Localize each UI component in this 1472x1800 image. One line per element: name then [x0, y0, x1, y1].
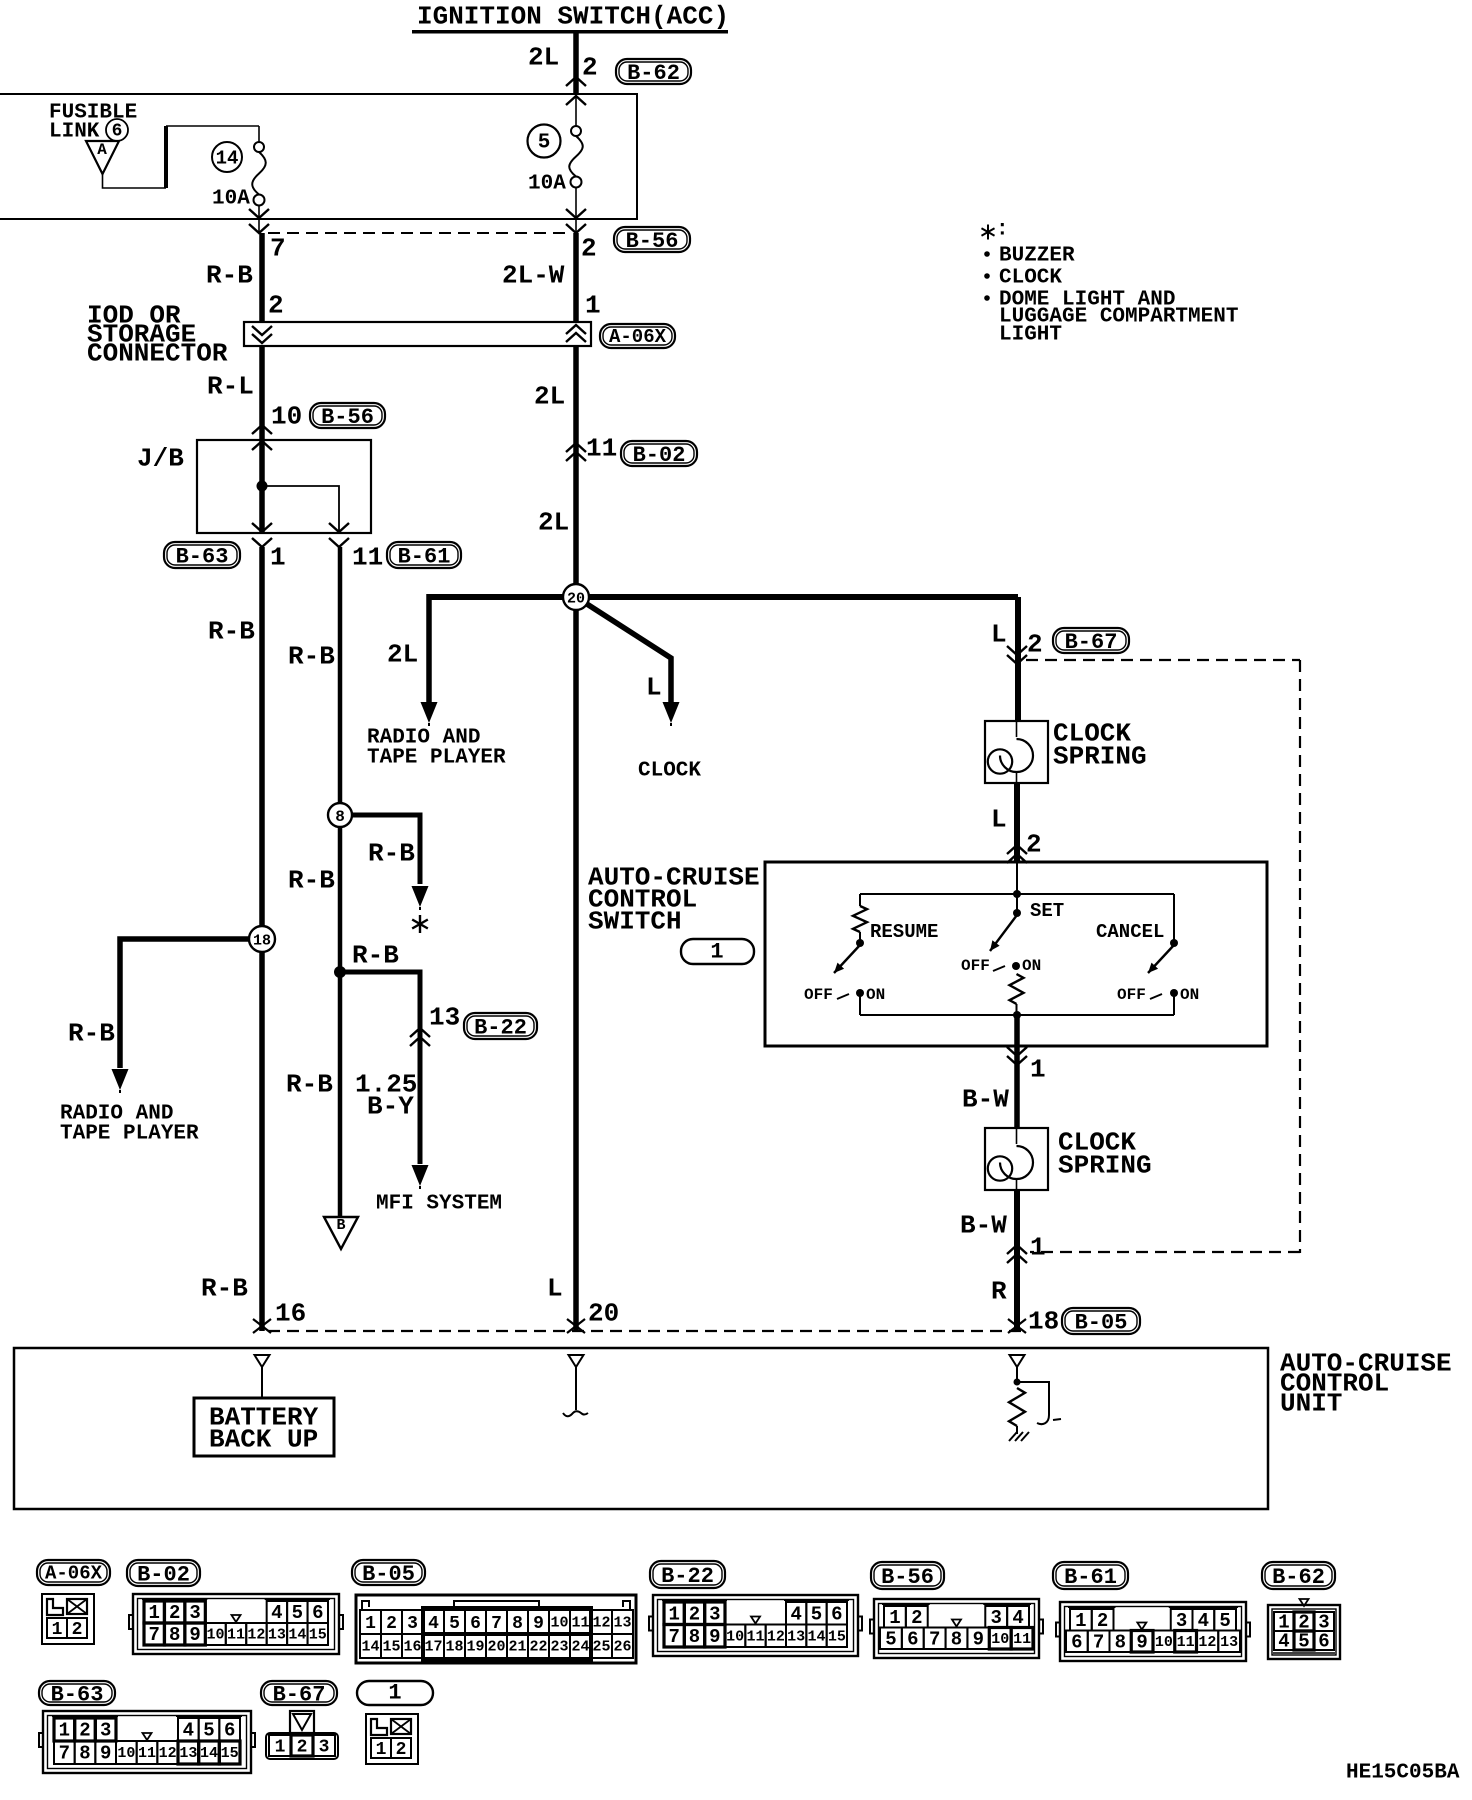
svg-text:R-B: R-B: [288, 866, 335, 896]
fusible link 6 label: [49, 102, 137, 144]
svg-text:B: B: [336, 1217, 345, 1234]
svg-text:SWITCH: SWITCH: [588, 907, 682, 937]
svg-text:25: 25: [592, 1639, 610, 1656]
junction dot on R-B wire: [334, 966, 346, 978]
svg-text:7: 7: [929, 1628, 940, 1650]
wire from fusible link to fuse 14: [103, 126, 260, 188]
svg-text:L: L: [646, 673, 662, 703]
svg-text:10: 10: [271, 402, 302, 432]
cancel switch: [1096, 894, 1199, 1015]
svg-text:13: 13: [179, 1745, 197, 1762]
svg-text:6: 6: [312, 1602, 323, 1624]
svg-text:7: 7: [59, 1743, 70, 1765]
svg-text:2: 2: [386, 1614, 397, 1634]
svg-text:2: 2: [396, 1740, 407, 1760]
svg-text:13: 13: [787, 1628, 805, 1645]
connector B-56 ref (top): [270, 227, 690, 264]
svg-text:A: A: [97, 141, 107, 159]
svg-text:IGNITION SWITCH(ACC): IGNITION SWITCH(ACC): [417, 2, 729, 32]
svg-text:10: 10: [117, 1745, 135, 1762]
svg-text:2: 2: [72, 1620, 83, 1640]
connector B-56 ref (J/B pin 10): [310, 403, 385, 428]
svg-text:B-56: B-56: [626, 229, 679, 254]
svg-text:10: 10: [550, 1615, 568, 1632]
svg-text:9: 9: [533, 1614, 544, 1634]
svg-text:15: 15: [382, 1639, 400, 1656]
svg-text:8: 8: [1115, 1631, 1126, 1653]
svg-text:2: 2: [581, 234, 597, 264]
connector B-62 ref: [616, 59, 691, 84]
svg-text:B-02: B-02: [137, 1563, 190, 1588]
connector B-63 ref: [164, 542, 286, 573]
svg-text:13: 13: [429, 1003, 460, 1033]
wire 2L from IOD connector down middle: [534, 346, 617, 591]
svg-text:ON: ON: [1022, 957, 1041, 975]
switch internal top bus: [860, 862, 1174, 913]
svg-text:7: 7: [149, 1624, 160, 1646]
svg-text:B-63: B-63: [51, 1683, 104, 1708]
fuse/junction box: [0, 94, 637, 219]
svg-text:10A: 10A: [528, 173, 566, 196]
auto-cruise control switch box: [765, 862, 1267, 1046]
svg-text:A-06X: A-06X: [45, 1563, 103, 1585]
svg-text:8: 8: [169, 1624, 180, 1646]
branch 2L to radio and tape player: [367, 594, 506, 770]
svg-text:1: 1: [1030, 1055, 1046, 1085]
svg-text:R-L: R-L: [207, 372, 254, 402]
svg-text:8: 8: [951, 1628, 962, 1650]
battery back up: [194, 1355, 334, 1456]
svg-text:5: 5: [538, 132, 551, 155]
svg-text:17: 17: [424, 1639, 442, 1656]
svg-text:CONNECTOR: CONNECTOR: [87, 339, 228, 369]
svg-text:L: L: [547, 1274, 563, 1304]
svg-text:11: 11: [352, 543, 383, 573]
svg-text:2: 2: [1097, 1610, 1108, 1632]
svg-text:6: 6: [112, 122, 123, 142]
svg-text:2: 2: [911, 1607, 922, 1629]
svg-text:14: 14: [216, 148, 239, 170]
svg-text:UNIT: UNIT: [1280, 1389, 1342, 1419]
svg-text:OFF: OFF: [804, 986, 833, 1004]
wire B-W switch output pin 1: [962, 1015, 1046, 1128]
svg-text:SET: SET: [1030, 900, 1064, 922]
svg-text:R-B: R-B: [208, 617, 255, 647]
svg-text:11: 11: [138, 1745, 156, 1762]
pin 20 internal continuation: [563, 1355, 588, 1416]
svg-text:8: 8: [512, 1614, 523, 1634]
svg-text:13: 13: [613, 1615, 631, 1632]
svg-text:12: 12: [159, 1745, 177, 1762]
J/B internal junction and branch: [252, 440, 349, 547]
svg-text:2L: 2L: [387, 640, 418, 670]
svg-text:B-62: B-62: [1272, 1565, 1325, 1590]
svg-text:6: 6: [470, 1614, 481, 1634]
svg-text:10: 10: [726, 1628, 744, 1645]
svg-text:6: 6: [1318, 1631, 1329, 1653]
connector B-62 pinout: [1262, 1562, 1340, 1659]
svg-text:5: 5: [885, 1628, 896, 1650]
svg-text:R-B: R-B: [206, 261, 253, 291]
svg-text:3: 3: [709, 1603, 720, 1625]
svg-text:11: 11: [586, 434, 617, 464]
svg-text:1: 1: [585, 291, 601, 321]
svg-text:15: 15: [221, 1745, 239, 1762]
svg-text:B-62: B-62: [627, 61, 680, 86]
connector B-61 pinout: [1053, 1562, 1250, 1661]
svg-text:OFF: OFF: [1117, 986, 1146, 1004]
node 8 branch with asterisk destination: [340, 815, 429, 910]
svg-text:10: 10: [1155, 1634, 1173, 1651]
svg-text:B-56: B-56: [881, 1565, 934, 1590]
asterisk mark: [419, 915, 421, 933]
svg-text:B-22: B-22: [661, 1564, 714, 1589]
labels middle column bottom: [547, 1274, 619, 1329]
svg-text:4: 4: [1012, 1607, 1023, 1629]
svg-text:1: 1: [376, 1740, 387, 1760]
svg-text:OFF: OFF: [961, 957, 990, 975]
connector B-67 pinout: [261, 1681, 338, 1759]
svg-text:B-W: B-W: [960, 1211, 1007, 1241]
svg-text:RESUME: RESUME: [870, 921, 938, 943]
svg-text:8: 8: [79, 1743, 90, 1765]
svg-text:11: 11: [746, 1628, 764, 1645]
svg-text:3: 3: [991, 1607, 1002, 1629]
wire 2L-W from pin 2 to IOD connector pin 1: [502, 233, 601, 322]
dashed harness boundary bottom: [268, 1330, 1022, 1332]
svg-text:B-63: B-63: [176, 545, 229, 570]
svg-text:B-05: B-05: [362, 1562, 415, 1587]
svg-text:10: 10: [991, 1631, 1009, 1648]
svg-text:3: 3: [100, 1720, 111, 1742]
svg-text:18: 18: [253, 932, 271, 949]
svg-text:2L: 2L: [528, 43, 559, 73]
svg-text:21: 21: [508, 1639, 526, 1656]
svg-text:5: 5: [1298, 1631, 1309, 1653]
resume switch: [804, 894, 938, 1015]
svg-text:3: 3: [319, 1737, 330, 1757]
svg-text:B-67: B-67: [1065, 630, 1118, 655]
IOD or storage connector label: [87, 301, 228, 369]
svg-text:1: 1: [59, 1720, 70, 1742]
svg-text:3: 3: [1176, 1610, 1187, 1632]
svg-text:TAPE PLAYER: TAPE PLAYER: [60, 1123, 199, 1146]
connector B-05 ref: [1062, 1308, 1140, 1334]
svg-text:2: 2: [689, 1603, 700, 1625]
svg-text:11: 11: [1177, 1634, 1195, 1651]
set switch: [961, 900, 1064, 1015]
node 20 junction bus: [429, 594, 1018, 600]
svg-text:12: 12: [247, 1627, 265, 1644]
svg-text:18: 18: [1028, 1307, 1059, 1337]
node 18: [249, 926, 275, 952]
svg-text:CANCEL: CANCEL: [1096, 921, 1164, 943]
svg-text:2: 2: [297, 1737, 308, 1757]
svg-text:7: 7: [270, 234, 286, 264]
svg-text:A-06X: A-06X: [609, 326, 667, 348]
switch internal bottom bus: [860, 1011, 1174, 1019]
svg-text:11: 11: [571, 1615, 589, 1632]
junction block J/B: [137, 440, 371, 533]
svg-text:5: 5: [203, 1720, 214, 1742]
svg-text:18: 18: [445, 1639, 463, 1656]
dashed column boundary box: [1026, 660, 1300, 1253]
IOD or storage connector bar: [244, 322, 591, 346]
branch R-B to B-22 / MFI system: [340, 941, 502, 1216]
bottom label R-B pin 16: [201, 1274, 306, 1329]
node 18 branch to radio and tape player: [60, 939, 262, 1146]
svg-text:R-B: R-B: [201, 1274, 248, 1304]
svg-text::: :: [996, 219, 1009, 242]
node 20: [563, 584, 589, 610]
clock spring 2: [985, 1128, 1152, 1191]
svg-text:16: 16: [275, 1299, 306, 1329]
svg-text:R-B: R-B: [352, 941, 399, 971]
svg-text:7: 7: [491, 1614, 502, 1634]
svg-text:J/B: J/B: [137, 444, 184, 474]
svg-text:CLOCK: CLOCK: [999, 267, 1062, 290]
svg-text:2: 2: [1027, 630, 1043, 660]
svg-text:9: 9: [1136, 1631, 1147, 1653]
svg-text:3: 3: [189, 1602, 200, 1624]
wire L middle column to pin 20: [573, 591, 579, 1331]
connector B-56 pinout: [870, 1562, 1043, 1658]
svg-text:6: 6: [224, 1720, 235, 1742]
svg-text:12: 12: [767, 1628, 785, 1645]
svg-text:9: 9: [973, 1628, 984, 1650]
svg-text:BUZZER: BUZZER: [999, 245, 1075, 268]
svg-text:ON: ON: [866, 986, 885, 1004]
svg-text:5: 5: [811, 1603, 822, 1625]
wire L clock spring to switch pin 2: [991, 783, 1042, 863]
svg-text:B-56: B-56: [321, 405, 374, 430]
svg-text:R-B: R-B: [368, 839, 415, 869]
ground B: [324, 1217, 358, 1249]
svg-text:20: 20: [487, 1639, 505, 1656]
fusible link A triangle: [86, 141, 119, 174]
svg-text:B-05: B-05: [1075, 1311, 1128, 1336]
connector B-02 pinout: [127, 1560, 343, 1654]
svg-text:1: 1: [270, 543, 286, 573]
svg-text:11: 11: [1013, 1631, 1031, 1648]
svg-text:5: 5: [1219, 1610, 1230, 1632]
svg-text:2: 2: [1026, 830, 1042, 860]
svg-text:15: 15: [828, 1628, 846, 1645]
svg-text:4: 4: [1198, 1610, 1209, 1632]
svg-text:4: 4: [271, 1602, 282, 1624]
clock spring 1: [985, 719, 1147, 784]
svg-text:TAPE PLAYER: TAPE PLAYER: [367, 747, 506, 770]
connector A-06X ref: [600, 324, 675, 348]
svg-text:10: 10: [207, 1627, 225, 1644]
svg-text:10A: 10A: [212, 188, 250, 211]
svg-text:MFI SYSTEM: MFI SYSTEM: [376, 1193, 502, 1216]
svg-text:14: 14: [200, 1745, 218, 1762]
svg-text:20: 20: [588, 1299, 619, 1329]
svg-text:2: 2: [268, 291, 284, 321]
svg-text:13: 13: [268, 1627, 286, 1644]
svg-text:B-61: B-61: [398, 545, 451, 570]
svg-text:9: 9: [189, 1624, 200, 1646]
svg-text:1: 1: [52, 1620, 63, 1640]
svg-text:8: 8: [689, 1626, 700, 1648]
svg-text:8: 8: [335, 808, 345, 826]
svg-text:3: 3: [407, 1614, 418, 1634]
svg-text:R: R: [991, 1277, 1007, 1307]
svg-text:SPRING: SPRING: [1053, 742, 1147, 772]
wire L to clock spring (B-67 pin 2): [991, 597, 1043, 721]
svg-text:24: 24: [571, 1639, 589, 1656]
svg-text:20: 20: [567, 590, 585, 607]
svg-text:HE15C05BA: HE15C05BA: [1346, 1762, 1460, 1785]
svg-text:1: 1: [1075, 1610, 1086, 1632]
svg-text:2L-W: 2L-W: [502, 261, 565, 291]
svg-text:1: 1: [388, 1681, 401, 1706]
wire 2L from ignition switch to fuse box, pin 2: [528, 33, 598, 94]
svg-text:22: 22: [529, 1639, 547, 1656]
wire R-B second column (B-61 pin 11): [288, 547, 340, 1216]
svg-text:11: 11: [227, 1627, 245, 1644]
svg-text:1: 1: [149, 1602, 160, 1624]
svg-text:B-W: B-W: [962, 1085, 1009, 1115]
svg-text:2: 2: [79, 1720, 90, 1742]
svg-text:4: 4: [183, 1720, 194, 1742]
svg-text:4: 4: [428, 1614, 439, 1634]
svg-text:6: 6: [1071, 1631, 1082, 1653]
fuse 14 (10A): [212, 142, 266, 211]
pin 18 internal resistor to ground: [1009, 1355, 1061, 1441]
svg-text:1: 1: [1030, 1233, 1046, 1263]
svg-text:6: 6: [831, 1603, 842, 1625]
dashed harness boundary top: [268, 232, 570, 234]
svg-text:R-B: R-B: [288, 642, 335, 672]
svg-text:7: 7: [1093, 1631, 1104, 1653]
svg-text:B-22: B-22: [474, 1016, 527, 1041]
connector B-67 ref: [1053, 628, 1129, 653]
wire R-B from pin 7 to IOD connector pin 2: [206, 233, 284, 322]
svg-text:5: 5: [449, 1614, 460, 1634]
svg-text:R-B: R-B: [286, 1070, 333, 1100]
connector A-06X pinout: [37, 1560, 110, 1644]
svg-text:7: 7: [668, 1626, 679, 1648]
svg-text:2L: 2L: [538, 508, 569, 538]
svg-text:1: 1: [365, 1614, 376, 1634]
wire R-B left column (B-63 pin 1): [208, 547, 262, 1331]
svg-text:B-67: B-67: [273, 1683, 326, 1708]
node 8: [328, 803, 352, 827]
svg-text:12: 12: [1198, 1634, 1216, 1651]
connector B-22 pinout: [649, 1561, 862, 1656]
svg-text:BACK UP: BACK UP: [209, 1425, 318, 1455]
svg-text:1: 1: [710, 940, 723, 965]
wire end marks at unit boundary: [253, 1319, 1026, 1333]
svg-text:9: 9: [709, 1626, 720, 1648]
svg-text:CLOCK: CLOCK: [638, 760, 701, 783]
connector B-63 pinout: [39, 1681, 255, 1773]
connector B-02 ref: [621, 441, 697, 466]
svg-text:4: 4: [790, 1603, 801, 1625]
svg-text:13: 13: [1220, 1634, 1238, 1651]
svg-text:L: L: [991, 620, 1007, 650]
wire fuse 14 to B-56 pin 7: [249, 205, 269, 233]
svg-text:SPRING: SPRING: [1058, 1151, 1152, 1181]
svg-text:B-02: B-02: [633, 443, 686, 468]
wire R-L from IOD connector to J/B: [207, 346, 302, 450]
svg-text:16: 16: [403, 1639, 421, 1656]
connector B-22 ref: [464, 1013, 537, 1039]
svg-text:14: 14: [361, 1639, 379, 1656]
svg-text:19: 19: [466, 1639, 484, 1656]
svg-text:L: L: [991, 805, 1007, 835]
svg-text:9: 9: [100, 1743, 111, 1765]
connector B-61 ref: [352, 542, 461, 573]
svg-text:R-B: R-B: [68, 1019, 115, 1049]
svg-text:LIGHT: LIGHT: [999, 324, 1062, 347]
svg-text:4: 4: [1278, 1631, 1289, 1653]
svg-text:26: 26: [613, 1639, 631, 1656]
connector 1 pinout: [357, 1681, 433, 1765]
svg-text:14: 14: [807, 1628, 825, 1645]
svg-text:1: 1: [889, 1607, 900, 1629]
auto-cruise control switch label: [588, 863, 760, 937]
svg-text:ON: ON: [1180, 986, 1199, 1004]
fuse 5 (10A): [528, 94, 587, 196]
connector 1 ref (switch): [681, 939, 754, 965]
wire fuse 5 to B-56 pin 2: [566, 187, 586, 233]
connector B-05 pinout: [352, 1560, 636, 1663]
svg-text:B-Y: B-Y: [367, 1092, 414, 1122]
auto-cruise control unit label: [1280, 1349, 1452, 1419]
auto-cruise control unit box: [14, 1348, 1268, 1509]
svg-text:6: 6: [907, 1628, 918, 1650]
svg-text:15: 15: [309, 1627, 327, 1644]
wire B-W / R to auto-cruise unit pin 18: [960, 1190, 1059, 1337]
svg-text:2L: 2L: [534, 382, 565, 412]
branch L to clock: [576, 597, 701, 783]
svg-text:14: 14: [288, 1627, 306, 1644]
svg-text:1: 1: [275, 1737, 286, 1757]
svg-text:5: 5: [292, 1602, 303, 1624]
svg-text:12: 12: [592, 1615, 610, 1632]
svg-text:2: 2: [582, 53, 598, 83]
note: buzzer, clock, dome light: [981, 219, 1238, 347]
svg-text:23: 23: [550, 1639, 568, 1656]
svg-text:2: 2: [169, 1602, 180, 1624]
svg-text:1: 1: [668, 1603, 679, 1625]
ignition switch (ACC) title: [412, 2, 729, 34]
svg-text:B-61: B-61: [1064, 1565, 1117, 1590]
